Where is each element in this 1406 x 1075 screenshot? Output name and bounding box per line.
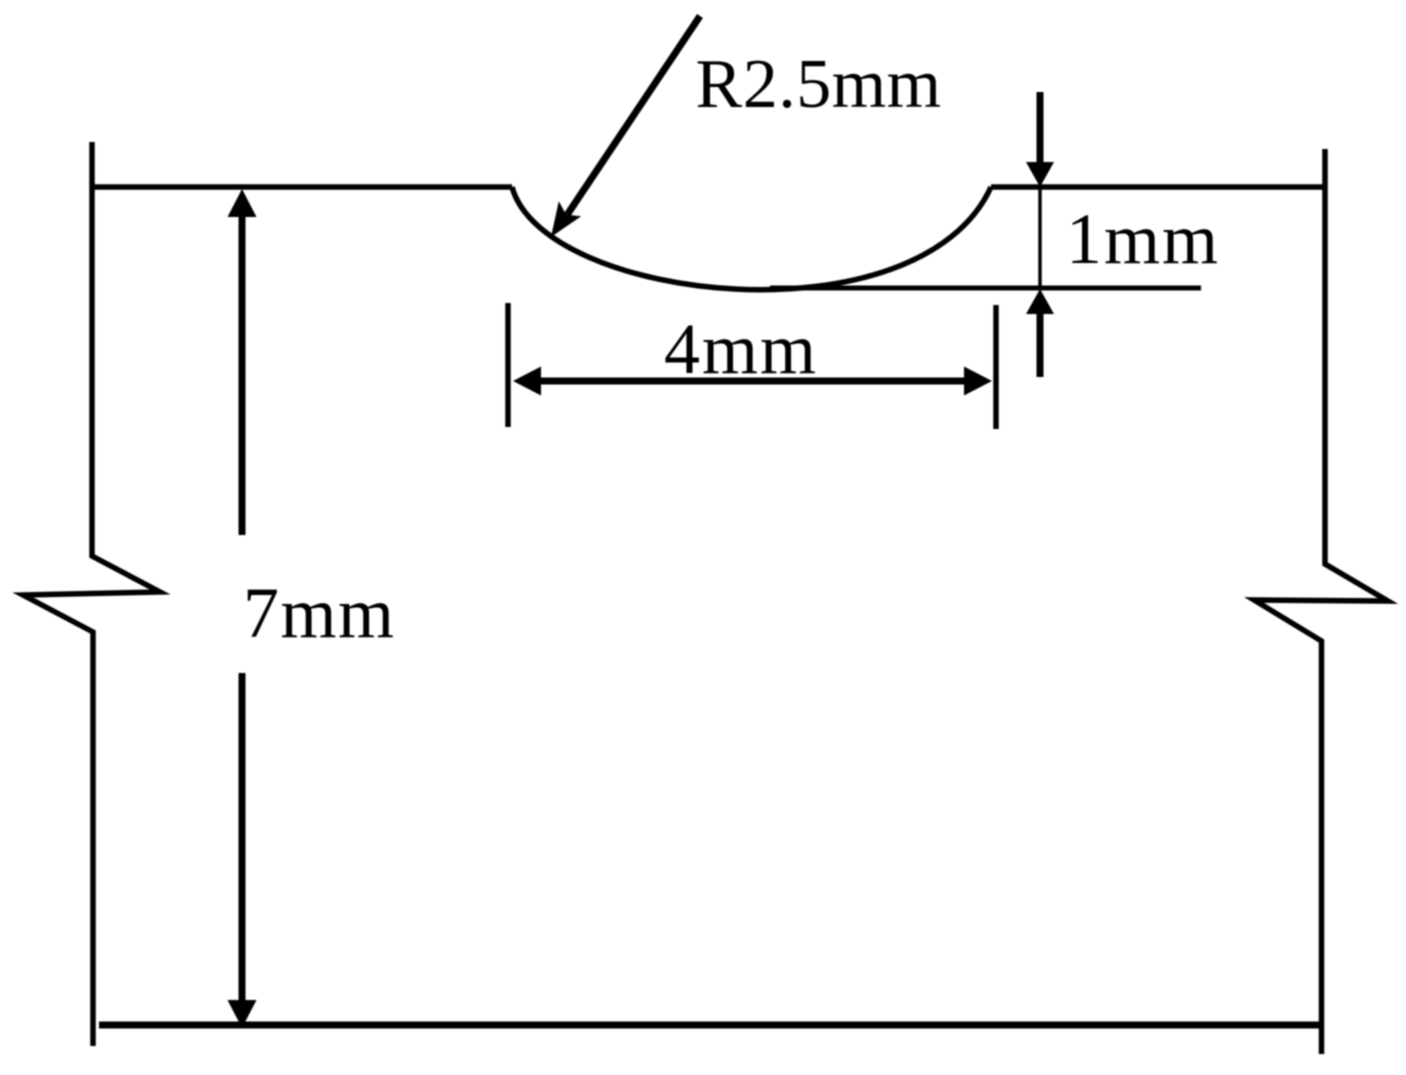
svg-text:7mm: 7mm xyxy=(243,573,396,653)
svg-text:4mm: 4mm xyxy=(664,309,818,389)
svg-text:R2.5mm: R2.5mm xyxy=(696,46,942,123)
svg-text:1mm: 1mm xyxy=(1066,199,1220,279)
